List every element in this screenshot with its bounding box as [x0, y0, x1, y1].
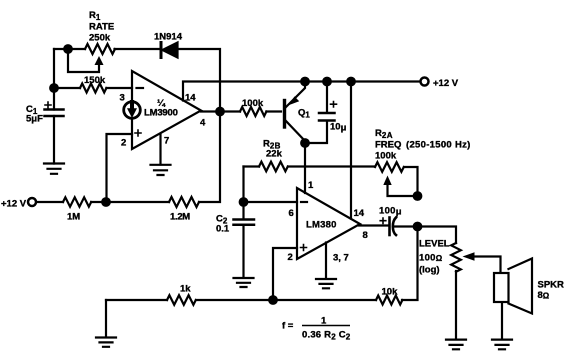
resistor 1.2M	[169, 197, 199, 207]
svg-text:2: 2	[121, 138, 126, 149]
svg-text:5μF: 5μF	[26, 114, 43, 125]
plus sign pin2 U2	[301, 245, 307, 251]
svg-text:10μ: 10μ	[330, 122, 347, 134]
wire pin3-7 U2	[325, 243, 327, 279]
ground speaker	[492, 340, 512, 350]
resistor R2A 100k	[375, 162, 404, 172]
capacitor C1	[45, 102, 64, 116]
potentiometer LEVEL 100ohm	[451, 243, 461, 272]
wire Q1 emitter node down	[304, 143, 306, 193]
wiper R2A	[388, 182, 418, 196]
capacitor 10u	[305, 82, 337, 144]
wire 150k row	[54, 87, 132, 89]
wire LEVEL to ground	[455, 271, 457, 339]
svg-text:250k: 250k	[89, 33, 111, 44]
svg-text:1M: 1M	[67, 212, 80, 223]
svg-text:SPKR: SPKR	[538, 280, 565, 291]
transistor Q1	[285, 82, 306, 142]
wiper arrow R2A	[383, 176, 391, 186]
ground 1k	[96, 338, 116, 347]
wire pin2 U1	[107, 134, 133, 202]
wire top-left rail	[54, 48, 160, 50]
svg-text:2: 2	[288, 252, 293, 263]
op-amp U1 LM3900	[132, 71, 201, 149]
wire left column vertical	[53, 49, 55, 164]
wire bottom bus	[106, 227, 418, 301]
wire pin14 U2	[350, 82, 352, 219]
wiper arrow LEVEL	[463, 252, 475, 260]
plus sign pin2	[135, 130, 141, 136]
svg-text:100μ: 100μ	[379, 206, 402, 218]
wire pin6 U2	[244, 201, 298, 203]
svg-text:RATE: RATE	[89, 22, 114, 33]
wire 100k to Q1 base	[266, 110, 281, 112]
ground LEVEL	[446, 340, 466, 350]
wire mid-left corner to pin6 node	[242, 167, 244, 203]
wiper arrow R1	[95, 56, 104, 65]
resistor 1k	[167, 295, 196, 305]
wire pin7 U1	[159, 134, 161, 165]
wire mid row	[244, 167, 418, 197]
svg-text:1N914: 1N914	[154, 32, 183, 43]
wire output node row	[201, 110, 240, 112]
svg-text:(log): (log)	[419, 265, 440, 276]
ground pin3-7 U2	[316, 279, 336, 288]
svg-text:LEVEL: LEVEL	[419, 239, 450, 250]
svg-text:7: 7	[164, 136, 169, 147]
current source symbol U1	[124, 102, 141, 119]
resistor 10k	[376, 296, 402, 305]
wiper LEVEL wire	[468, 257, 501, 274]
ground C1	[44, 164, 64, 174]
svg-text:100k: 100k	[242, 98, 264, 109]
svg-text:FREQ(250-1500 Hz): FREQ(250-1500 Hz)	[375, 140, 471, 151]
terminal +12V left	[28, 198, 36, 206]
speaker SPKR	[494, 259, 532, 314]
svg-text:22k: 22k	[266, 149, 283, 160]
resistor R2B 22k	[259, 162, 288, 172]
ground C2	[234, 278, 254, 287]
wire 1k to ground	[105, 300, 107, 337]
ground pin7 U1	[151, 165, 171, 175]
resistor 100k base	[240, 107, 266, 116]
wire diode to output node	[180, 49, 221, 112]
formula frequency	[282, 316, 351, 342]
svg-text:14: 14	[354, 208, 365, 219]
svg-text:100Ω: 100Ω	[419, 253, 443, 264]
wire R1 wiper loop	[68, 49, 99, 72]
resistor 1M	[63, 197, 91, 206]
svg-text:LM3900: LM3900	[144, 108, 178, 119]
wire pin14 U1 to +12V rail	[183, 82, 421, 101]
op-amp U2 LM380	[297, 188, 360, 259]
resistor R1 250k	[85, 44, 115, 54]
svg-text:8Ω: 8Ω	[538, 290, 550, 301]
svg-text:0.36 R2 C2: 0.36 R2 C2	[302, 330, 351, 342]
wire +12V left to node	[36, 201, 106, 203]
svg-text:150k: 150k	[84, 75, 106, 86]
svg-text:1k: 1k	[180, 284, 191, 295]
wire node to 1.2M	[106, 201, 169, 203]
junction dots	[63, 44, 73, 54]
svg-text:f =: f =	[282, 321, 294, 332]
minus sign pin3	[137, 87, 144, 89]
wire 1.2M up to output node	[199, 112, 220, 203]
wire U2 output row	[359, 226, 456, 244]
wire speaker to ground	[501, 304, 503, 340]
svg-text:0.1: 0.1	[216, 224, 230, 235]
svg-text:+12 V: +12 V	[1, 199, 27, 210]
svg-text:10k: 10k	[382, 287, 399, 298]
capacitor C2	[234, 202, 255, 278]
resistor 150k	[80, 84, 106, 93]
minus sign pin6	[301, 201, 307, 203]
capacitor 100u	[380, 218, 396, 236]
diode 1N914	[161, 43, 178, 58]
svg-text:3: 3	[120, 93, 125, 104]
svg-text:100k: 100k	[375, 151, 397, 162]
wire pin2 U2	[273, 248, 297, 300]
svg-text:3, 7: 3, 7	[333, 253, 349, 264]
svg-text:LM380: LM380	[306, 220, 337, 231]
svg-text:4: 4	[200, 118, 206, 129]
svg-text:1.2M: 1.2M	[170, 212, 190, 223]
svg-text:+12 V: +12 V	[433, 78, 459, 89]
svg-text:1: 1	[308, 180, 314, 191]
svg-text:8: 8	[363, 230, 368, 241]
terminal +12V top	[421, 78, 429, 86]
svg-text:6: 6	[289, 208, 294, 219]
svg-text:14: 14	[185, 93, 196, 104]
